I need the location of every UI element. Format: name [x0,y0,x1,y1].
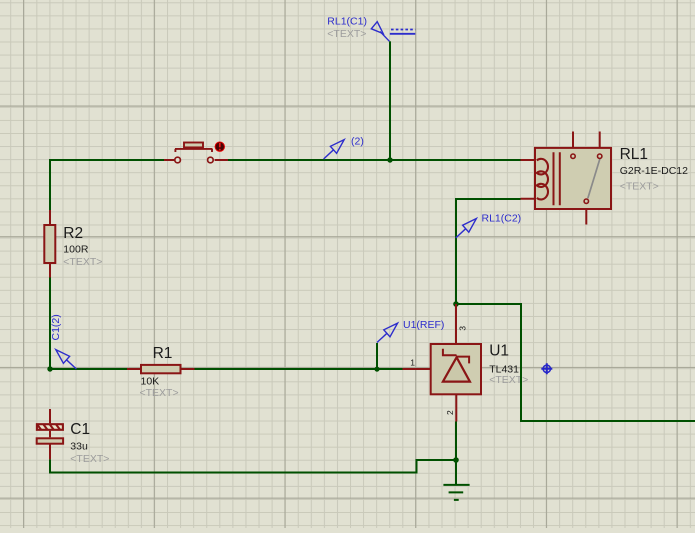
svg-text:U1: U1 [489,342,509,359]
svg-text:2: 2 [445,410,455,415]
svg-text:100R: 100R [63,244,89,256]
svg-text:1: 1 [410,357,415,367]
svg-text:33u: 33u [70,441,88,453]
svg-text:<TEXT>: <TEXT> [63,256,102,268]
svg-text:G2R-1E-DC12: G2R-1E-DC12 [620,165,688,177]
svg-text:<TEXT>: <TEXT> [70,453,109,465]
svg-text:RL1(C2): RL1(C2) [482,213,522,225]
svg-text:U1(REF): U1(REF) [403,319,444,331]
svg-text:C1: C1 [70,421,90,438]
svg-text:RL1(C1): RL1(C1) [327,16,367,28]
svg-text:<TEXT>: <TEXT> [489,374,528,386]
svg-text:C1(2): C1(2) [50,314,62,340]
svg-text:R2: R2 [63,225,83,242]
svg-text:(2): (2) [351,135,364,147]
svg-text:<TEXT>: <TEXT> [140,387,179,399]
svg-text:3: 3 [457,326,467,331]
svg-text:R1: R1 [153,345,173,362]
svg-text:<TEXT>: <TEXT> [620,181,659,193]
svg-text:<TEXT>: <TEXT> [327,28,366,40]
svg-text:10K: 10K [141,375,160,387]
svg-text:RL1: RL1 [620,146,648,163]
